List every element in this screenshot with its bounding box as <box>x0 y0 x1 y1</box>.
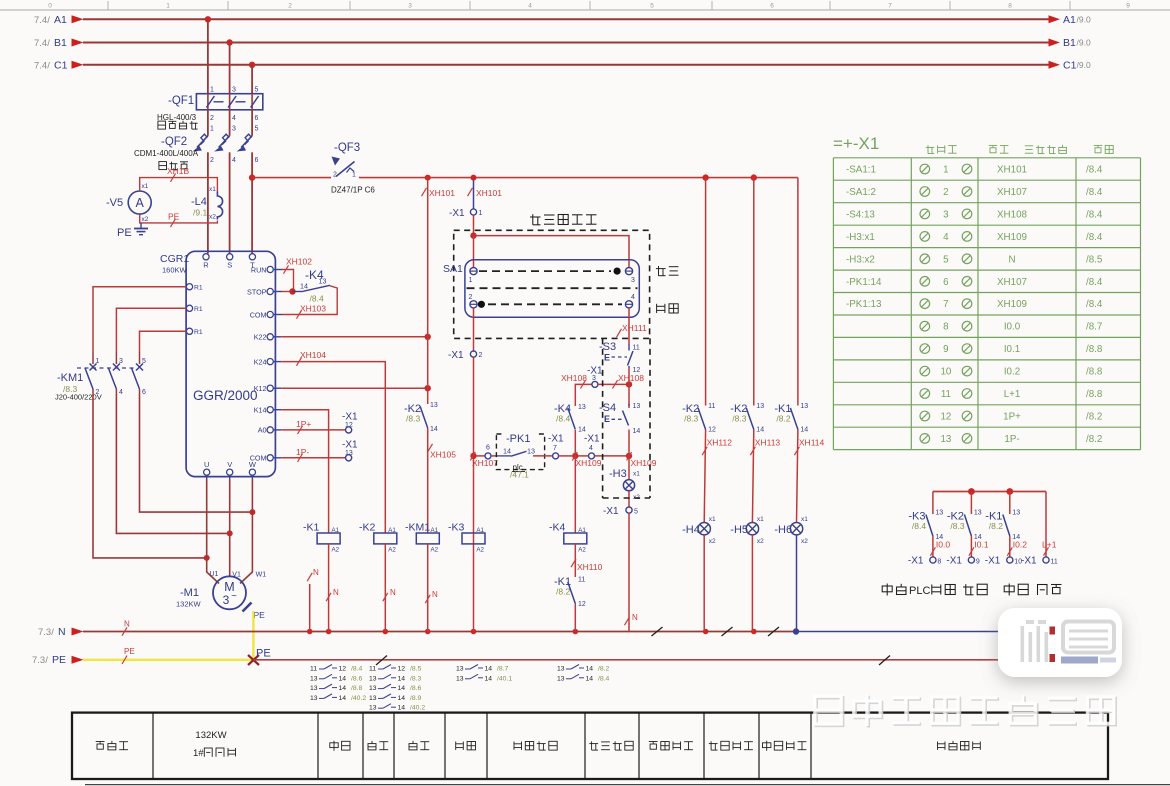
svg-text:13: 13 <box>1012 510 1020 517</box>
svg-text:14: 14 <box>800 427 808 434</box>
svg-text:-X1: -X1 <box>449 208 465 219</box>
bus A1 (7.4/A1) <box>34 14 1091 26</box>
wire label XH110 <box>571 559 603 572</box>
svg-text:-S4:13: -S4:13 <box>846 209 875 220</box>
svg-text:CGR1: CGR1 <box>160 253 189 265</box>
svg-text:-X1: -X1 <box>342 412 358 423</box>
wire rung seg3 <box>533 455 553 457</box>
contact K1 PLC + terminal X1:10 <box>985 492 1027 567</box>
svg-text:/8.3: /8.3 <box>410 675 422 682</box>
wire S4 to rung <box>628 430 630 456</box>
svg-text:12: 12 <box>339 666 347 673</box>
svg-text:PE: PE <box>124 647 135 656</box>
svg-text:x1: x1 <box>801 516 808 523</box>
svg-text:6: 6 <box>255 157 259 164</box>
contact K2 aux 13-14 (XH101 branch) <box>404 402 438 433</box>
S3-H3 dashed enclosure <box>603 338 650 498</box>
terminal X1:13 <box>342 440 358 461</box>
svg-text:132KW: 132KW <box>176 600 202 609</box>
wire label XH107 <box>470 452 498 468</box>
svg-text:STOP: STOP <box>247 287 267 296</box>
svg-text:PE: PE <box>117 227 132 239</box>
wire K24 stub <box>273 361 281 363</box>
svg-text:-KM1: -KM1 <box>405 522 430 534</box>
wire label N stub <box>307 568 319 581</box>
contact K1b and lamp H6 <box>774 178 824 632</box>
cross-ref list K3 <box>456 665 512 683</box>
wire SA1 top link <box>474 236 630 268</box>
isolator QF1 (HGL-400/3) <box>157 87 263 130</box>
svg-text:2: 2 <box>943 187 948 198</box>
svg-text:12: 12 <box>940 412 951 423</box>
bottom legend table labels <box>96 730 981 759</box>
svg-text:-X1: -X1 <box>1021 556 1037 567</box>
wire node to S4 <box>628 384 630 408</box>
svg-text:2: 2 <box>210 157 214 164</box>
wire X1:1 into box <box>473 215 475 236</box>
svg-text:/8.2: /8.2 <box>598 666 610 673</box>
svg-text:N: N <box>1008 254 1015 265</box>
node PLC bus 2 <box>1006 488 1013 495</box>
svg-text:12: 12 <box>398 666 406 673</box>
svg-text:x2: x2 <box>709 538 716 545</box>
svg-text:10: 10 <box>940 367 951 378</box>
svg-text:I0.2: I0.2 <box>1004 367 1020 378</box>
svg-text:3: 3 <box>223 593 230 607</box>
wire label XH104 <box>297 350 327 366</box>
svg-text:PE: PE <box>256 648 271 660</box>
svg-text:4: 4 <box>631 294 635 301</box>
coil K3 <box>448 522 485 554</box>
breaker QF3 (DZ47/1P C6) <box>331 142 375 195</box>
svg-text:-SA1:2: -SA1:2 <box>846 187 876 198</box>
svg-text:1P-: 1P- <box>1004 434 1019 445</box>
svg-text:/9.0: /9.0 <box>1077 60 1091 70</box>
svg-text:9: 9 <box>943 344 948 355</box>
svg-text:/8.8: /8.8 <box>1086 344 1103 355</box>
svg-text:/8.4: /8.4 <box>310 294 324 304</box>
watermark text xianyu id <box>815 694 1116 727</box>
svg-text:A1: A1 <box>578 527 586 534</box>
terminal X1:1 <box>449 208 483 219</box>
wire V to motor <box>229 475 231 576</box>
svg-text:5: 5 <box>255 126 259 133</box>
svg-text:E: E <box>604 353 610 363</box>
svg-text:/8.4: /8.4 <box>1086 299 1103 310</box>
terminal X1:2 <box>448 350 483 361</box>
node N junction x705 <box>703 629 709 635</box>
node N stub <box>307 629 313 635</box>
svg-text:5: 5 <box>142 358 146 365</box>
svg-text:/8.6: /8.6 <box>410 685 422 692</box>
svg-text:XH107: XH107 <box>472 458 498 468</box>
svg-text:/8.3: /8.3 <box>684 414 698 424</box>
svg-text:A2: A2 <box>476 547 484 554</box>
svg-text:13: 13 <box>430 402 438 409</box>
svg-text:14: 14 <box>398 705 406 712</box>
svg-text:-KM1: -KM1 <box>57 372 83 384</box>
wire label XH108 left <box>561 373 587 389</box>
svg-text:I0.0: I0.0 <box>1004 322 1021 333</box>
node STOP junction <box>289 288 295 294</box>
svg-text:2: 2 <box>210 115 214 122</box>
wire COM 1P- <box>281 457 345 459</box>
svg-text:~: ~ <box>231 591 237 602</box>
svg-text:DZ47/1P C6: DZ47/1P C6 <box>331 186 375 195</box>
svg-text:x1: x1 <box>209 186 216 193</box>
wire rung seg6 <box>595 455 630 457</box>
svg-text:13: 13 <box>369 695 377 702</box>
svg-text:-X1: -X1 <box>548 434 564 445</box>
terminal table rows <box>846 164 1103 445</box>
wire XH108 right <box>598 383 629 385</box>
svg-text:XH108: XH108 <box>618 373 644 383</box>
terminal X1:6 <box>485 445 491 459</box>
svg-text:12: 12 <box>708 427 716 434</box>
svg-text:14: 14 <box>398 685 406 692</box>
wire H3 to X1:5 <box>628 491 630 507</box>
svg-text:-K1: -K1 <box>303 522 320 534</box>
bus PE yellow (7.3/PE) <box>32 654 253 666</box>
wire K22 <box>281 336 427 338</box>
svg-text:PE: PE <box>254 610 266 620</box>
svg-text:14: 14 <box>633 428 641 435</box>
wire K12 <box>281 387 427 389</box>
wire QF1-QF2 A <box>207 110 209 136</box>
svg-text:SA1: SA1 <box>443 263 463 275</box>
svg-text:8: 8 <box>943 322 949 333</box>
ammeter V5 <box>106 183 151 223</box>
node N junction x575 <box>573 629 579 635</box>
svg-text:XH103: XH103 <box>300 304 326 314</box>
wire label N on bus <box>122 620 130 636</box>
motor M1 132KW <box>176 571 266 609</box>
svg-text:PE: PE <box>168 212 180 222</box>
svg-text:4: 4 <box>943 232 949 243</box>
svg-text:-QF2: -QF2 <box>161 136 187 148</box>
svg-text:13: 13 <box>369 675 377 682</box>
node N junction x473 <box>471 629 477 635</box>
svg-text:1: 1 <box>96 358 100 365</box>
wire SA1 pin4 down <box>628 308 630 344</box>
svg-text:A0: A0 <box>258 426 267 435</box>
svg-text:/8.8: /8.8 <box>1086 367 1103 378</box>
svg-text:W1: W1 <box>256 572 267 579</box>
node B1 junction <box>226 39 232 45</box>
node SA1 feed <box>470 232 476 238</box>
svg-text:13: 13 <box>935 510 943 517</box>
wire X1:5 to N <box>628 513 630 631</box>
svg-text:13: 13 <box>940 434 951 445</box>
svg-text:14: 14 <box>485 675 493 682</box>
svg-text:XH102: XH102 <box>286 257 312 267</box>
svg-text:U1: U1 <box>210 571 219 578</box>
svg-text:A1: A1 <box>332 527 340 534</box>
svg-text:1: 1 <box>352 172 356 179</box>
svg-text:N: N <box>124 620 130 629</box>
svg-text:XH104: XH104 <box>300 350 326 360</box>
svg-text:14: 14 <box>398 675 406 682</box>
svg-text:132KW: 132KW <box>195 730 226 741</box>
node bypass U <box>204 555 210 561</box>
svg-text:14: 14 <box>756 427 764 434</box>
svg-text:11: 11 <box>1051 559 1058 566</box>
wire QF1-QF2 C <box>251 110 253 136</box>
svg-text:A1: A1 <box>388 527 396 534</box>
node C control tap <box>249 174 255 180</box>
svg-text:13: 13 <box>974 510 982 517</box>
svg-text:4: 4 <box>119 389 123 396</box>
contact K4 aux 14-13 <box>293 268 331 304</box>
svg-text:U: U <box>204 460 209 469</box>
svg-text:13: 13 <box>557 675 565 682</box>
wire label XH109 right <box>627 452 657 468</box>
wire K12 stub <box>273 387 281 389</box>
node rung S4 junction <box>626 453 632 459</box>
wire control feed right <box>359 177 798 179</box>
terminal X1:7 <box>548 434 564 459</box>
svg-text:6: 6 <box>770 3 774 10</box>
svg-text:-K2: -K2 <box>359 522 376 534</box>
svg-text:-K4: -K4 <box>549 522 566 534</box>
svg-text:/8.4: /8.4 <box>556 414 570 424</box>
svg-text:1: 1 <box>479 210 483 217</box>
svg-text:-QF1: -QF1 <box>168 95 194 107</box>
svg-text:/8.5: /8.5 <box>410 666 422 673</box>
svg-text:/8.3: /8.3 <box>406 414 420 424</box>
svg-text:R: R <box>203 261 209 270</box>
svg-text:3: 3 <box>631 277 635 284</box>
svg-text:7.4/: 7.4/ <box>34 60 50 71</box>
svg-text:W: W <box>249 460 257 469</box>
svg-text:/40.1: /40.1 <box>497 675 512 682</box>
svg-text:3: 3 <box>232 126 236 133</box>
wire label PE on bus <box>122 647 135 664</box>
wire rung seg2 <box>491 455 498 457</box>
svg-text:/8.2: /8.2 <box>989 521 1003 531</box>
svg-text:x1: x1 <box>633 471 640 478</box>
wire label N H3 <box>625 613 639 625</box>
node bypass V <box>227 530 233 536</box>
drawing border top ruler <box>0 1 1170 10</box>
wire STOP stub <box>273 291 292 293</box>
wire KM1 coil to N <box>427 544 429 632</box>
svg-text:I0.1: I0.1 <box>1004 344 1020 355</box>
svg-text:R1: R1 <box>194 285 203 292</box>
wire label XH108 r <box>613 373 645 389</box>
wire A0 stub <box>273 429 281 431</box>
svg-text:-X1: -X1 <box>584 434 600 445</box>
wire K22 stub <box>273 336 281 338</box>
svg-text:L+1: L+1 <box>1004 389 1021 400</box>
svg-text:I0.0: I0.0 <box>936 540 950 550</box>
node PE junction <box>248 648 271 666</box>
svg-text:13: 13 <box>633 403 641 410</box>
svg-text:XH101: XH101 <box>476 188 502 198</box>
wire label XH102 <box>284 257 313 274</box>
node S3-S4 junction <box>626 381 632 387</box>
svg-text:XH101: XH101 <box>429 188 455 198</box>
svg-text:11: 11 <box>941 389 951 400</box>
wire S3 to node <box>628 368 630 384</box>
wire K1 contact to N <box>574 604 576 632</box>
emergency switch S4 13-14 <box>599 402 640 435</box>
svg-text:XH113: XH113 <box>755 438 781 448</box>
svg-text:N: N <box>632 613 638 622</box>
svg-text:4: 4 <box>232 115 236 122</box>
selector switch SA1 <box>443 260 639 318</box>
svg-text:5: 5 <box>943 254 949 265</box>
svg-text:13: 13 <box>456 666 464 673</box>
wire XH101 down <box>427 178 429 404</box>
label run <box>963 584 987 595</box>
lamp H3 <box>609 468 640 501</box>
svg-text:A1: A1 <box>431 527 439 534</box>
wire A0 1P+ <box>281 429 345 431</box>
wire label XH101 right <box>468 188 503 198</box>
svg-text:-PK1:13: -PK1:13 <box>846 299 882 310</box>
svg-text:1P+: 1P+ <box>1003 412 1021 423</box>
wire KM1 pole6 bypass W <box>140 394 253 512</box>
svg-text:XH109: XH109 <box>631 458 657 468</box>
svg-text:11: 11 <box>310 666 317 673</box>
svg-text:13: 13 <box>578 404 586 411</box>
svg-text:/8.7: /8.7 <box>497 666 509 673</box>
svg-text:XH108: XH108 <box>997 209 1028 220</box>
motor PE tick <box>243 603 266 621</box>
wire XH108 <box>575 384 591 406</box>
svg-text:I0.1: I0.1 <box>974 540 988 550</box>
node N blue junction <box>793 628 799 634</box>
svg-text:x1: x1 <box>757 516 764 523</box>
wire QF2-GGR B <box>229 152 231 253</box>
svg-text:12: 12 <box>345 422 353 429</box>
wire R1-1 to KM1 pole1 <box>93 287 186 352</box>
svg-text:COM: COM <box>250 310 267 319</box>
svg-text:7.4/: 7.4/ <box>34 38 50 49</box>
svg-text:7: 7 <box>943 299 948 310</box>
svg-text:13: 13 <box>310 695 318 702</box>
svg-text:14: 14 <box>339 675 347 682</box>
svg-text:XH107: XH107 <box>997 187 1027 198</box>
contact K2 and lamp H4 <box>682 178 732 632</box>
wire rung to K4 coil <box>574 456 576 533</box>
svg-text:x1: x1 <box>709 516 716 523</box>
wire label 1P+ <box>296 419 311 434</box>
wire K4 to COM <box>273 286 337 315</box>
svg-text:I0.2: I0.2 <box>1013 540 1027 550</box>
wire SA1 pin2 down <box>473 308 475 351</box>
svg-text:7: 7 <box>553 445 557 452</box>
svg-text:2: 2 <box>479 352 483 359</box>
svg-text:A: A <box>136 196 145 210</box>
wire K24 XH104 <box>281 362 385 533</box>
svg-text:K24: K24 <box>254 357 267 366</box>
svg-text:1: 1 <box>210 87 214 94</box>
emergency switch S3 11-12 <box>599 341 640 374</box>
svg-text:N: N <box>58 626 66 638</box>
label field control box <box>530 214 597 225</box>
svg-text:B1: B1 <box>54 37 67 49</box>
node N junction x427 <box>425 629 431 635</box>
svg-text:/8.4: /8.4 <box>1086 187 1103 198</box>
node lamp branch H4 tap <box>702 174 708 180</box>
svg-text:/8.4: /8.4 <box>598 675 610 682</box>
svg-text:-PK1: -PK1 <box>506 433 530 445</box>
label central position <box>657 304 679 313</box>
current transformer L4 <box>191 186 223 221</box>
svg-text:3: 3 <box>119 358 123 365</box>
bottom legend table grid <box>72 713 1108 779</box>
svg-text:14: 14 <box>586 675 594 682</box>
svg-text:8: 8 <box>937 559 941 566</box>
wire label N KM1 <box>425 590 438 603</box>
label common <box>1038 584 1062 595</box>
contact K1 aux 11-12 <box>554 576 586 608</box>
wire K14 to K1 coil <box>281 410 328 533</box>
svg-text:4: 4 <box>528 3 532 10</box>
wire X1:1 drop blue <box>473 178 475 209</box>
svg-text:5: 5 <box>634 509 638 516</box>
wire R1-2 to KM1 pole3 <box>116 308 186 352</box>
wire RUN stub <box>273 269 282 271</box>
svg-text:/8.2: /8.2 <box>1086 434 1102 445</box>
svg-text:14: 14 <box>485 666 493 673</box>
wire XH110 <box>574 544 576 577</box>
wire phase C drop <box>251 65 253 94</box>
svg-text:J20-400/220V: J20-400/220V <box>55 393 102 402</box>
svg-text:160KW: 160KW <box>162 266 188 275</box>
svg-text:/8.2: /8.2 <box>556 587 570 597</box>
wire U to motor <box>207 475 219 583</box>
node N junction x328 <box>326 629 332 635</box>
svg-text:A1: A1 <box>54 14 67 26</box>
svg-text:XH107: XH107 <box>997 277 1027 288</box>
wire KM1 pole4 bypass V <box>116 394 229 533</box>
svg-text:XH114: XH114 <box>799 438 825 448</box>
svg-text:2: 2 <box>469 294 473 301</box>
svg-text:x2: x2 <box>801 538 808 545</box>
wire label PE on ammeter loop <box>168 212 180 228</box>
svg-text:N: N <box>313 568 319 577</box>
wire N stub x310 <box>309 584 311 632</box>
svg-text:-X1: -X1 <box>448 350 464 361</box>
wire QF2-GGR C <box>251 152 253 253</box>
svg-text:-L4: -L4 <box>191 196 207 208</box>
svg-text:12: 12 <box>578 601 586 608</box>
svg-text:1: 1 <box>210 126 214 133</box>
phase tick on N bus <box>768 627 779 636</box>
svg-text:XH109: XH109 <box>997 232 1027 243</box>
svg-text:11: 11 <box>633 345 640 352</box>
svg-text:PE: PE <box>52 654 66 666</box>
svg-text:-H3: -H3 <box>609 468 627 480</box>
svg-text:-X1: -X1 <box>342 440 358 451</box>
wire COM stub <box>273 457 281 459</box>
svg-text:-X1: -X1 <box>946 556 962 567</box>
bus N (7.3/N) <box>38 626 796 638</box>
svg-text:B1: B1 <box>1063 37 1076 49</box>
contact K3 PLC + terminal X1:8 <box>908 492 950 567</box>
svg-text:13: 13 <box>310 675 318 682</box>
plc contact PK1 14-13 <box>496 431 544 480</box>
svg-text:-V5: -V5 <box>106 197 123 209</box>
svg-text:N: N <box>333 588 339 597</box>
svg-text:0: 0 <box>48 3 52 10</box>
svg-text:A1: A1 <box>476 527 484 534</box>
phase tick on N bus <box>722 627 733 636</box>
svg-text:1#: 1# <box>193 748 204 759</box>
